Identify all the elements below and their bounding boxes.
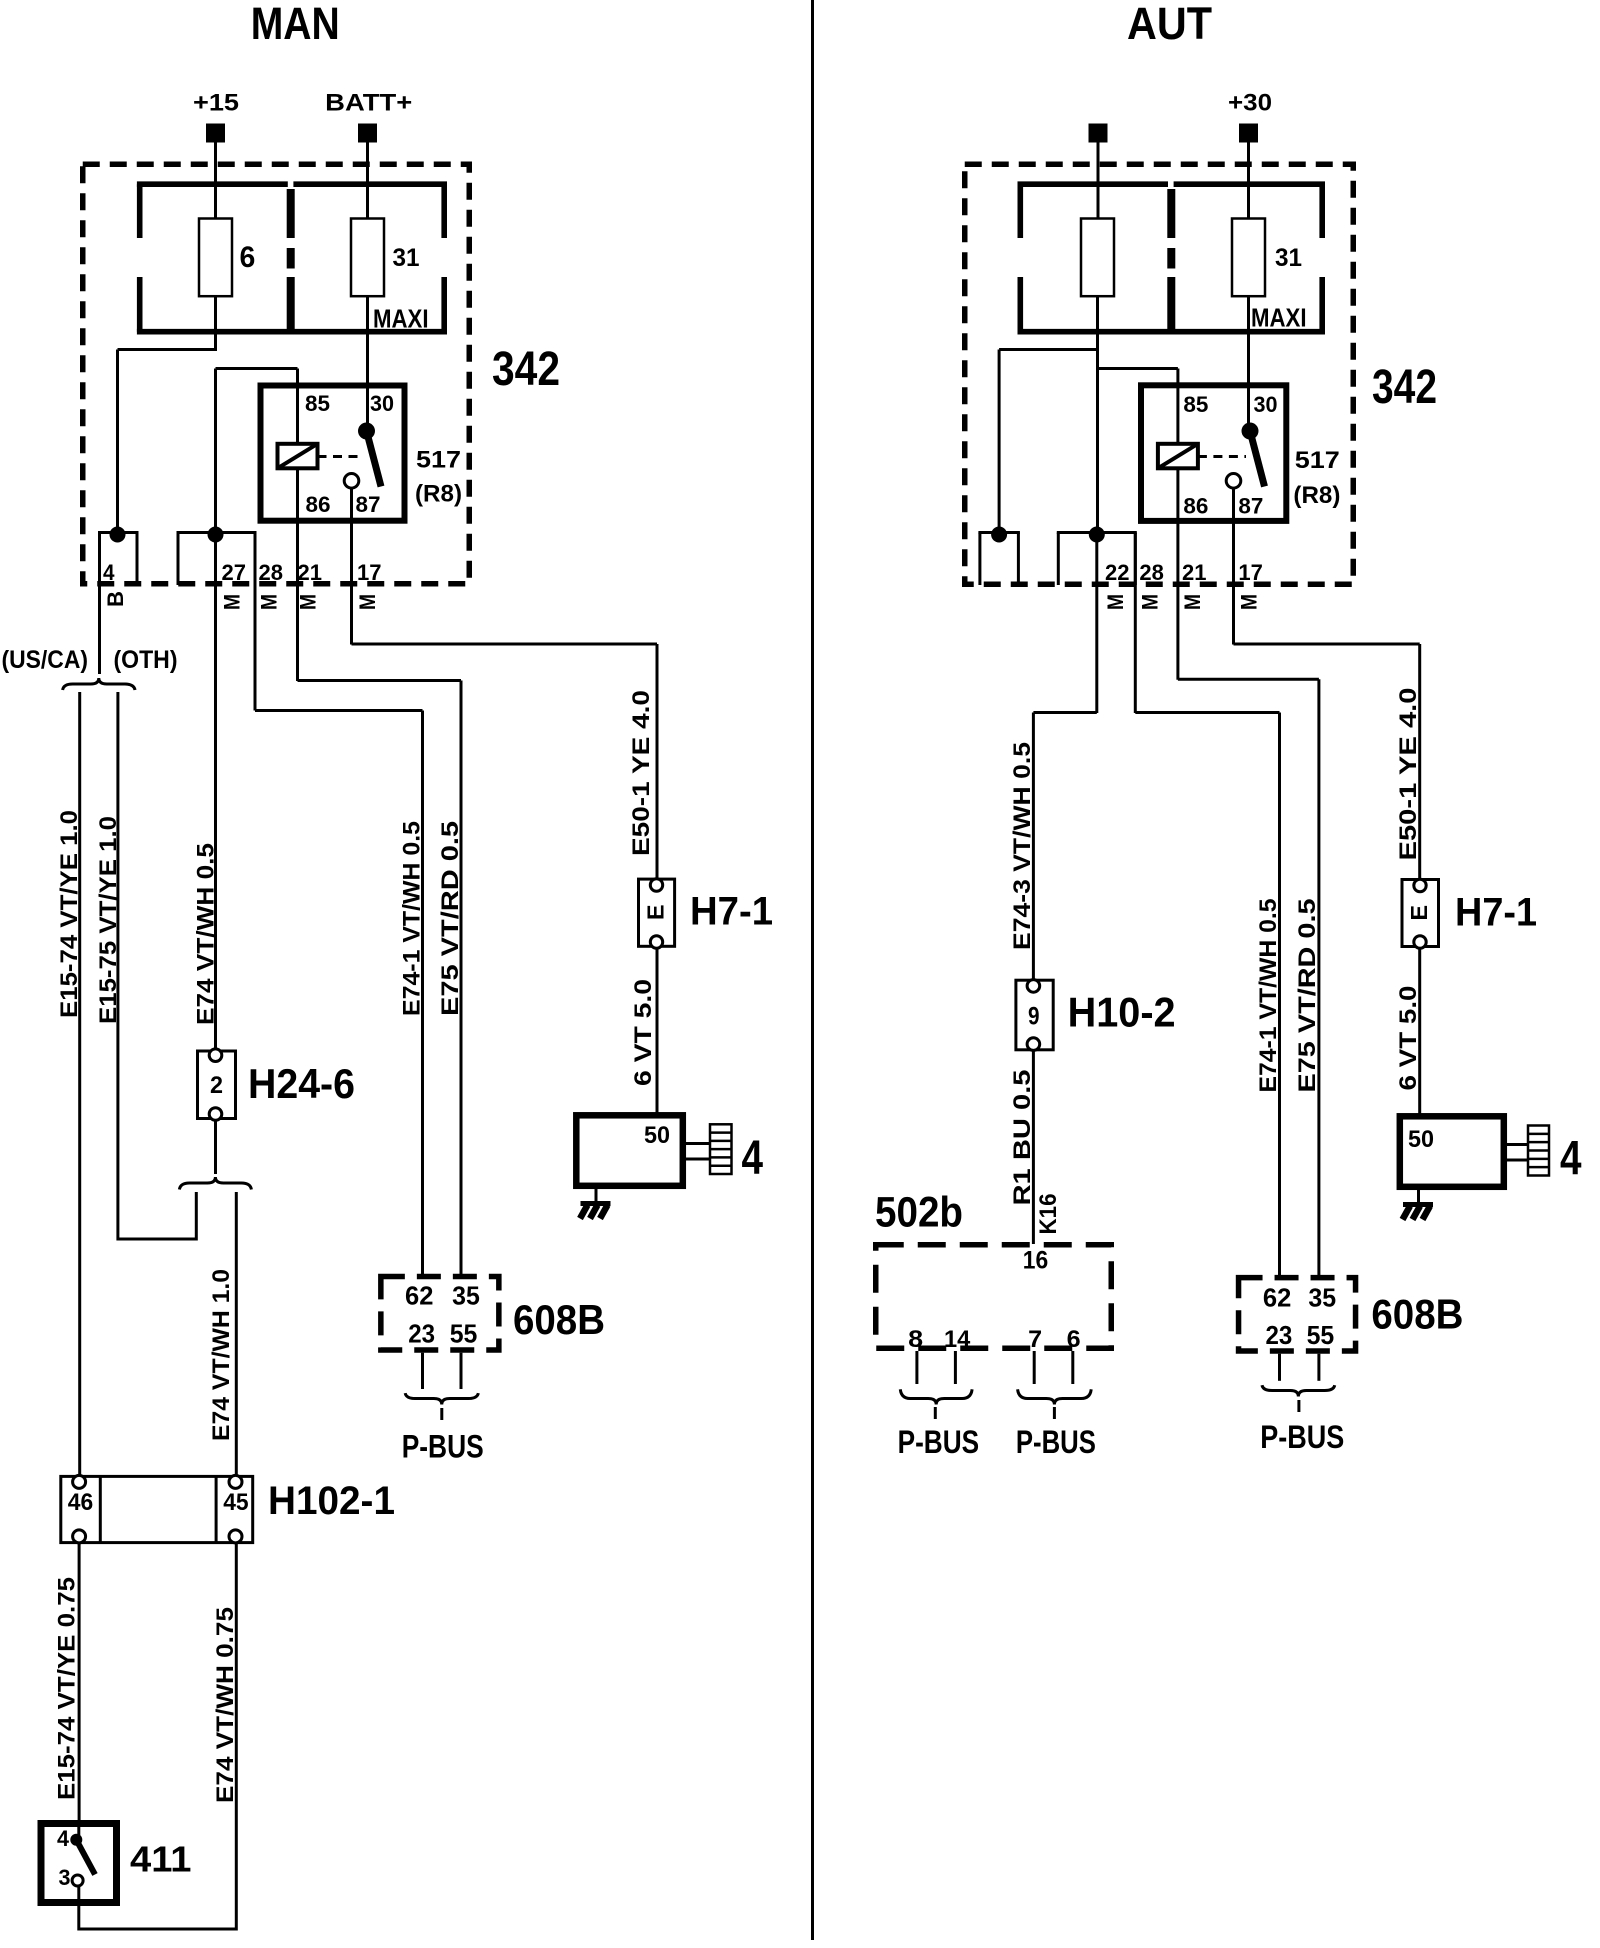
svg-text:B: B	[103, 591, 128, 607]
svg-text:2: 2	[210, 1072, 223, 1099]
svg-text:87: 87	[356, 492, 381, 517]
svg-text:(R8): (R8)	[415, 481, 462, 508]
svg-text:+30: +30	[1228, 90, 1272, 117]
svg-text:30: 30	[370, 391, 394, 416]
svg-text:517: 517	[416, 447, 461, 474]
svg-text:6 VT 5.0: 6 VT 5.0	[1395, 986, 1422, 1091]
svg-text:E50-1 YE 4.0: E50-1 YE 4.0	[1395, 688, 1422, 861]
svg-text:+15: +15	[193, 90, 239, 117]
svg-text:62: 62	[1263, 1282, 1291, 1312]
svg-text:H7-1: H7-1	[690, 890, 773, 934]
svg-text:E: E	[1406, 905, 1432, 921]
svg-text:45: 45	[223, 1489, 248, 1516]
svg-text:6: 6	[240, 241, 256, 274]
svg-text:21: 21	[298, 560, 323, 585]
svg-text:M: M	[1137, 594, 1162, 610]
svg-text:E: E	[643, 905, 669, 921]
svg-text:23: 23	[408, 1319, 435, 1349]
svg-text:4: 4	[742, 1132, 764, 1185]
svg-text:17: 17	[1238, 560, 1263, 585]
svg-text:K16: K16	[1035, 1194, 1062, 1235]
svg-text:M: M	[1180, 594, 1205, 610]
svg-text:H24-6: H24-6	[248, 1060, 355, 1107]
svg-text:E15-75 VT/YE 1.0: E15-75 VT/YE 1.0	[95, 816, 122, 1024]
svg-text:8: 8	[908, 1326, 923, 1353]
svg-text:BATT+: BATT+	[325, 90, 412, 117]
svg-text:517: 517	[1295, 447, 1340, 474]
svg-text:85: 85	[1183, 392, 1208, 417]
svg-text:31: 31	[393, 244, 420, 272]
svg-text:P-BUS: P-BUS	[1016, 1424, 1096, 1460]
svg-text:M: M	[355, 594, 380, 610]
svg-text:4: 4	[1560, 1133, 1582, 1186]
svg-text:E74 VT/WH 1.0: E74 VT/WH 1.0	[208, 1269, 235, 1441]
svg-text:55: 55	[450, 1319, 478, 1349]
svg-text:E50-1 YE 4.0: E50-1 YE 4.0	[628, 690, 655, 856]
svg-text:E74-3 VT/WH 0.5: E74-3 VT/WH 0.5	[1009, 742, 1036, 950]
svg-text:H7-1: H7-1	[1455, 891, 1537, 935]
svg-text:46: 46	[68, 1489, 93, 1516]
svg-text:17: 17	[357, 560, 382, 585]
svg-text:4: 4	[103, 560, 115, 585]
svg-text:6 VT 5.0: 6 VT 5.0	[630, 979, 657, 1086]
svg-text:342: 342	[1372, 361, 1437, 414]
svg-text:(US/CA): (US/CA)	[2, 646, 89, 674]
svg-text:E75 VT/RD 0.5: E75 VT/RD 0.5	[1294, 899, 1321, 1093]
svg-text:E15-74 VT/YE 1.0: E15-74 VT/YE 1.0	[56, 810, 83, 1018]
svg-text:50: 50	[1408, 1126, 1434, 1153]
svg-text:M: M	[1236, 594, 1261, 610]
svg-text:M: M	[296, 594, 321, 610]
svg-text:9: 9	[1028, 1003, 1040, 1031]
svg-text:E74-1 VT/WH 0.5: E74-1 VT/WH 0.5	[1255, 899, 1282, 1093]
svg-text:86: 86	[1183, 494, 1208, 519]
svg-text:E74 VT/WH 0.5: E74 VT/WH 0.5	[193, 843, 220, 1025]
svg-text:MAN: MAN	[251, 0, 340, 49]
svg-text:85: 85	[305, 391, 330, 416]
svg-text:87: 87	[1238, 494, 1263, 519]
svg-text:62: 62	[405, 1281, 433, 1311]
svg-text:4: 4	[57, 1826, 70, 1851]
svg-text:55: 55	[1307, 1320, 1335, 1350]
svg-text:608B: 608B	[1371, 1290, 1463, 1337]
svg-text:342: 342	[492, 343, 560, 396]
svg-text:E75 VT/RD 0.5: E75 VT/RD 0.5	[437, 821, 464, 1016]
svg-text:35: 35	[1308, 1282, 1336, 1312]
svg-text:411: 411	[130, 1839, 192, 1880]
svg-text:30: 30	[1254, 392, 1278, 417]
svg-text:M: M	[220, 594, 245, 610]
svg-text:P-BUS: P-BUS	[898, 1424, 980, 1460]
svg-text:23: 23	[1266, 1320, 1293, 1350]
svg-text:H102-1: H102-1	[268, 1479, 395, 1523]
svg-text:21: 21	[1182, 560, 1207, 585]
svg-text:(R8): (R8)	[1293, 482, 1340, 509]
svg-text:6: 6	[1067, 1326, 1081, 1353]
svg-text:3: 3	[59, 1865, 71, 1890]
svg-text:28: 28	[259, 560, 284, 585]
svg-text:502b: 502b	[875, 1189, 963, 1237]
svg-text:35: 35	[452, 1281, 480, 1311]
svg-text:27: 27	[222, 560, 247, 585]
svg-text:7: 7	[1028, 1326, 1042, 1353]
svg-text:M: M	[257, 594, 282, 610]
svg-text:14: 14	[944, 1326, 971, 1353]
svg-text:608B: 608B	[513, 1296, 605, 1343]
svg-text:P-BUS: P-BUS	[402, 1429, 484, 1465]
svg-text:P-BUS: P-BUS	[1260, 1419, 1344, 1455]
svg-text:E15-74 VT/YE 0.75: E15-74 VT/YE 0.75	[54, 1577, 81, 1800]
svg-text:16: 16	[1023, 1247, 1048, 1275]
svg-text:H10-2: H10-2	[1068, 989, 1176, 1036]
svg-text:(OTH): (OTH)	[114, 646, 178, 674]
svg-text:28: 28	[1139, 560, 1164, 585]
svg-text:50: 50	[644, 1122, 670, 1149]
svg-text:MAXI: MAXI	[1251, 303, 1307, 333]
svg-text:86: 86	[306, 492, 331, 517]
svg-text:31: 31	[1275, 244, 1302, 272]
svg-text:22: 22	[1105, 560, 1130, 585]
svg-text:M: M	[1103, 594, 1128, 610]
svg-text:MAXI: MAXI	[373, 304, 429, 334]
svg-text:AUT: AUT	[1127, 0, 1212, 49]
svg-text:E74-1 VT/WH 0.5: E74-1 VT/WH 0.5	[399, 821, 426, 1016]
